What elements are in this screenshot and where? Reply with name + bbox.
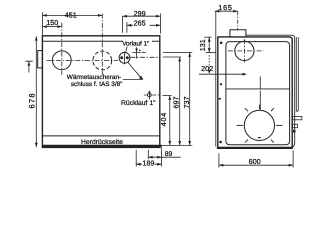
dim 89: [148, 156, 180, 158]
Vorlauf text leader: [126, 46, 128, 52]
left view: bottom band line: [43, 135, 159, 137]
upper vertical divider: [259, 76, 261, 89]
divider line: [226, 88, 290, 90]
dim 451: [42, 12, 102, 35]
dim line 697: [179, 57, 181, 145]
svg-text:Rücklauf 1": Rücklauf 1": [121, 100, 156, 107]
dim line 737: [189, 52, 191, 145]
svg-text:451: 451: [65, 10, 77, 19]
svg-text:150: 150: [46, 18, 58, 27]
svg-text:737: 737: [182, 97, 191, 109]
svg-text:Herdrückseite: Herdrückseite: [81, 139, 123, 146]
damper rod: [296, 37, 298, 111]
left view: thick bottom edge: [42, 145, 161, 148]
svg-text:265: 265: [134, 19, 146, 28]
small latch dot: [293, 130, 296, 133]
stub centerline: [237, 11, 239, 30]
dim 600: [219, 151, 293, 168]
extension lines right of left view: [163, 51, 192, 53]
svg-text:schluss f. tAS 3/8": schluss f. tAS 3/8": [71, 81, 123, 88]
back panel left edge + 165 extension: [215, 11, 217, 147]
tAS cross marker: [132, 47, 140, 58]
flue circle: [235, 41, 254, 60]
dim 299: [123, 16, 161, 33]
dim 678 line: [35, 36, 37, 147]
inner rounded panel: [226, 42, 290, 145]
svg-text:Vorlauf 1": Vorlauf 1": [122, 41, 149, 48]
WT circle C2 centerline vertical: [101, 14, 103, 76]
chimney stub: [230, 30, 246, 37]
svg-text:89: 89: [165, 151, 173, 158]
202 arrow line: [199, 73, 246, 75]
svg-text:189: 189: [142, 159, 154, 168]
dim 131/202 vertical: [208, 37, 210, 52]
hinge tab 1: [293, 116, 302, 119]
Ruecklauf fitting: [148, 93, 152, 97]
Vorlauf centerline to box edge: [130, 56, 159, 58]
left view: top band line: [42, 40, 159, 42]
back panel top and right: [246, 35, 294, 148]
svg-text:299: 299: [134, 9, 146, 18]
left view: stove rear panel outline: [42, 36, 159, 148]
svg-text:678: 678: [28, 92, 37, 108]
dim 189: [136, 163, 161, 165]
bottom dims of left view: [136, 148, 161, 167]
WT circle C2 (dashed): [93, 51, 112, 70]
WT circles horizontal centerline: [47, 59, 119, 61]
WT circle C1 centerline vertical: [61, 23, 63, 75]
screw dots: [220, 42, 223, 45]
WT circle C1: [52, 51, 71, 70]
main box of right view: [218, 37, 292, 148]
svg-text:404: 404: [159, 112, 168, 126]
svg-text:202: 202: [201, 64, 213, 73]
dim line 404: [169, 96, 171, 146]
aux short dim at stub level: [25, 61, 33, 72]
Vorlauf connection circle: [119, 52, 130, 63]
svg-text:600: 600: [249, 157, 261, 166]
svg-text:131: 131: [198, 39, 207, 51]
right edge extension up: [159, 14, 161, 34]
hinge tab 2: [293, 124, 298, 127]
left view: stub flange on left side: [38, 51, 43, 68]
svg-text:697: 697: [172, 97, 181, 109]
dim 265: [127, 22, 160, 33]
thick bottom edge right view: [217, 147, 293, 149]
dim 165: [215, 10, 238, 12]
svg-text:165: 165: [218, 3, 232, 12]
dim 150: [42, 26, 61, 28]
oven circle with ticks: [244, 110, 274, 140]
leader from tAS text to Vorlauf circle: [123, 62, 143, 79]
